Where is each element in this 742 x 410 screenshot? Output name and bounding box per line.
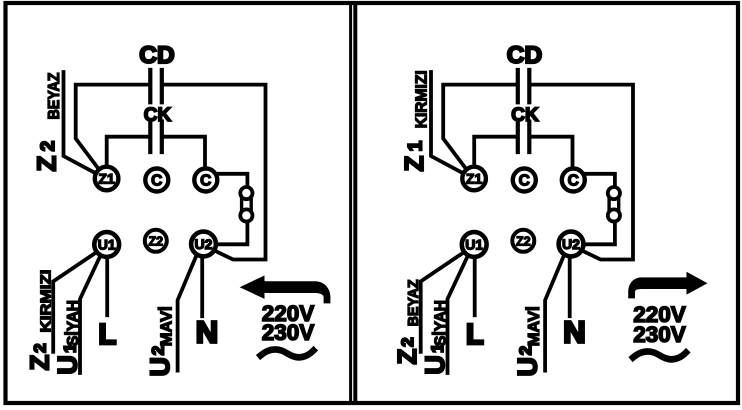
svg-text:U2: U2 — [562, 236, 580, 252]
capacitor CD plates (panel 2) — [518, 70, 530, 102]
svg-text:MAVİ: MAVİ — [525, 306, 543, 346]
svg-text:N: N — [563, 315, 585, 350]
svg-text:KIRMIZI: KIRMIZI — [413, 70, 430, 128]
wire CK right plate to terminal C (panel 2) — [531, 137, 572, 166]
left panel right border — [349, 3, 352, 403]
terminal Z2 (panel 1) — [145, 230, 167, 252]
terminal C right (panel 1) — [194, 169, 217, 192]
terminal U2 (panel 2) — [559, 232, 584, 257]
svg-text:CK: CK — [511, 105, 539, 126]
pointer line from label Z2 KIRMIZI to U1 (panel 1) — [53, 253, 96, 352]
wire CK left plate to Z1 (panel 1) — [107, 137, 149, 166]
wire U1 to L (panel 2) — [473, 258, 477, 316]
AC sine symbol (panel 2) — [633, 351, 686, 359]
terminal C left (panel 1) — [145, 169, 168, 192]
pointer line from label U1 SiYAH to U1 (panel 1) — [80, 257, 100, 374]
terminal Z1 (panel 2) — [462, 167, 486, 191]
pointer line from label Z2 BEYAZ to U1 (panel 2) — [421, 253, 464, 352]
wire CD left plate to Z1 (panel 1) — [76, 85, 149, 168]
wire CD right plate down to U2 (panel 2) — [531, 85, 633, 260]
svg-text:BEYAZ: BEYAZ — [46, 72, 63, 119]
arrow pointing right (panel 2) — [628, 272, 707, 299]
label U2 MAVİ (panel 2) — [513, 306, 543, 376]
wire thermal protector to U2 (panel 2) — [586, 222, 615, 245]
pointer line from label U2 MAVi to U2 (panel 1) — [178, 257, 196, 371]
wire U2 to N (panel 2) — [568, 259, 572, 317]
terminal C left (panel 2) — [513, 169, 536, 192]
svg-text:CK: CK — [144, 105, 172, 126]
svg-text:Z2: Z2 — [516, 234, 531, 248]
capacitor CK plates (panel 1) — [150, 122, 162, 153]
svg-text:C: C — [568, 172, 579, 189]
svg-text:230V: 230V — [633, 322, 686, 347]
svg-text:Z1: Z1 — [466, 171, 482, 186]
right panel left border — [353, 3, 357, 403]
wire CD right plate down to U2 (panel 1) — [164, 85, 266, 260]
capacitor CD plates (panel 1) — [150, 70, 162, 102]
terminal U1 (panel 2) — [462, 232, 487, 257]
pointer line from label Z1 KIRMIZI to Z1 (panel 2) — [431, 72, 462, 173]
thermal protector body (panel 2) — [609, 198, 619, 210]
thermal protector top contact (panel 2) — [608, 187, 620, 199]
svg-text:CD: CD — [139, 42, 174, 69]
thermal protector top contact (panel 1) — [240, 187, 252, 199]
svg-text:L: L — [466, 319, 484, 351]
terminal Z2 (panel 2) — [512, 230, 534, 252]
arrow pointing left (panel 1) — [240, 276, 331, 304]
terminal U1 (panel 1) — [94, 232, 119, 257]
svg-text:C: C — [519, 172, 530, 189]
pointer line from label Z2 BEYAZ to Z1 (panel 1) — [64, 72, 95, 173]
svg-text:230V: 230V — [262, 320, 315, 345]
wire CK right plate to terminal C (panel 1) — [164, 137, 205, 166]
AC sine symbol (panel 1) — [261, 349, 314, 357]
wire thermal protector to U2 (panel 1) — [218, 222, 247, 245]
thermal protector bottom contact (panel 2) — [608, 209, 620, 221]
svg-text:Z1: Z1 — [99, 171, 115, 186]
wire terminal C to thermal protector (panel 1) — [217, 174, 248, 187]
svg-text:C: C — [151, 172, 162, 189]
label Z2 BEYAZ (panel 1) — [32, 72, 63, 171]
wire U2 to N (panel 1) — [200, 259, 204, 317]
label Z2 BEYAZ (panel 2) — [392, 279, 422, 364]
svg-text:N: N — [196, 315, 218, 350]
svg-text:C: C — [200, 172, 211, 189]
terminal C right (panel 2) — [562, 169, 585, 192]
svg-text:U1: U1 — [465, 237, 483, 253]
pointer line from label U2 MAVi to U2 (panel 2) — [545, 257, 563, 371]
label Z2 KIRMIZI (panel 1) — [25, 270, 55, 371]
thermal protector body (panel 1) — [242, 198, 252, 210]
svg-text:U2: U2 — [195, 236, 213, 252]
svg-text:CD: CD — [507, 42, 542, 69]
label U2 MAVİ (panel 1) — [145, 306, 175, 376]
svg-text:L: L — [98, 319, 116, 351]
wire CK left plate to Z1 (panel 2) — [474, 137, 516, 166]
label Z1 KIRMIZI (panel 2) — [399, 70, 430, 171]
svg-text:MAVİ: MAVİ — [157, 306, 175, 346]
terminal U2 (panel 1) — [191, 232, 216, 257]
capacitor CK plates (panel 2) — [518, 122, 530, 153]
svg-text:U1: U1 — [98, 237, 116, 253]
wire terminal C to thermal protector (panel 2) — [584, 174, 615, 187]
pointer line from label U1 SiYAH to U1 (panel 2) — [448, 257, 468, 374]
label U1 SİYAH (panel 2) — [420, 300, 450, 375]
svg-text:Z2: Z2 — [149, 234, 164, 248]
label U1 SİYAH (panel 1) — [52, 300, 82, 375]
thermal protector bottom contact (panel 1) — [240, 209, 252, 221]
terminal Z1 (panel 1) — [95, 167, 119, 191]
wire U1 to L (panel 1) — [105, 258, 109, 316]
wire CD left plate to Z1 (panel 2) — [443, 85, 516, 168]
